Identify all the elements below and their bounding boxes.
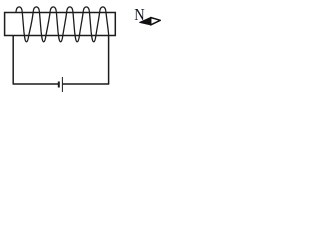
battery: short thick plate (negative) bbox=[58, 82, 60, 88]
compass needle: filled left half bbox=[140, 18, 151, 25]
wire: right lead bbox=[108, 35, 110, 84]
coil winding bbox=[16, 7, 109, 42]
battery: long thin plate (positive) bbox=[61, 77, 63, 92]
compass needle: outlined right half bbox=[151, 18, 161, 25]
wire: bottom right segment bbox=[62, 83, 109, 85]
iron core (rectangle) bbox=[5, 13, 116, 36]
wire: bottom left segment bbox=[13, 83, 59, 85]
wire: left lead bbox=[12, 35, 14, 84]
